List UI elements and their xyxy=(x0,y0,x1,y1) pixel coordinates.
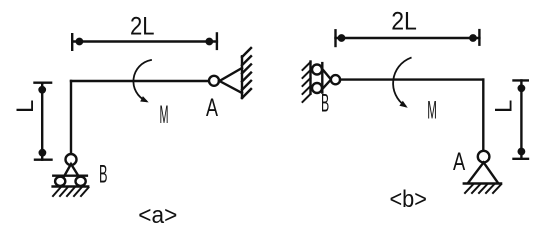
wall line at B (b) xyxy=(309,62,311,94)
hinge circle at B (a) xyxy=(66,154,77,165)
dimension line 2L (a) xyxy=(72,33,217,49)
svg-text:A: A xyxy=(206,94,218,122)
svg-text:B: B xyxy=(321,90,329,118)
svg-text:2L: 2L xyxy=(130,13,155,41)
roller bottom at B (b) xyxy=(312,83,322,93)
plate line at B (a) xyxy=(53,174,87,176)
wall hatching at B (b) xyxy=(303,62,311,102)
ground hatching at B (a) xyxy=(53,188,89,197)
wire: column (a) xyxy=(70,81,72,154)
wire: beam (b) xyxy=(340,78,483,80)
wire: beam (a) xyxy=(71,80,209,82)
svg-text:<b>: <b> xyxy=(390,186,427,213)
wire: column (b) xyxy=(482,80,484,151)
dimension line 2L (b) xyxy=(336,30,480,46)
dimension line L (a) xyxy=(35,83,52,160)
svg-text:B: B xyxy=(99,161,108,189)
ground line at A (b) xyxy=(464,182,501,184)
hinge circle at A (b) xyxy=(478,151,490,163)
moment arrow M (a) xyxy=(133,60,151,102)
wall support at A (a) xyxy=(220,48,252,98)
pin circle A (a) xyxy=(209,76,219,86)
svg-text:A: A xyxy=(453,148,465,176)
ground hatching at A (b) xyxy=(465,185,501,194)
support triangle at B (b) xyxy=(322,69,331,89)
svg-text:L: L xyxy=(491,100,518,113)
support triangle at A (b) xyxy=(469,162,498,182)
plate line at B (b) xyxy=(321,63,323,93)
svg-text:2L: 2L xyxy=(391,7,417,35)
support triangle at B (a) xyxy=(64,164,78,176)
svg-text:M: M xyxy=(427,96,437,124)
hinge circle at B (b) xyxy=(331,75,340,84)
dimension line L (b) xyxy=(514,80,529,158)
roller left at B (a) xyxy=(55,177,65,186)
moment arrow M (b) xyxy=(393,58,411,108)
roller top at B (b) xyxy=(312,65,322,75)
svg-text:L: L xyxy=(12,100,39,113)
svg-text:<a>: <a> xyxy=(138,202,177,229)
ground line at B (a) xyxy=(53,185,89,187)
svg-text:M: M xyxy=(160,101,169,129)
roller right at B (a) xyxy=(76,177,86,186)
